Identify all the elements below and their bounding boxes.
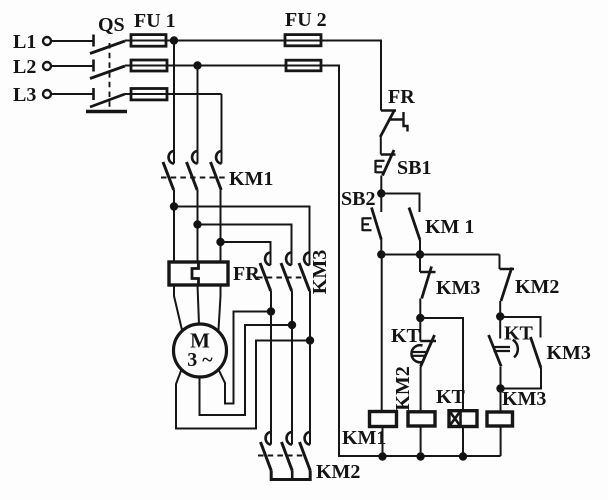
wire KM3-1 down — [270, 291, 272, 431]
terminal L2 — [43, 62, 51, 70]
coil KM2 — [408, 412, 435, 426]
KM2 main contact 2 — [287, 432, 292, 445]
wire KM2 coil to bus — [420, 426, 422, 456]
wire L1 drop — [173, 41, 175, 150]
wire W to KM3-1 — [221, 242, 271, 251]
svg-text:KM1: KM1 — [229, 168, 273, 190]
svg-text:L1: L1 — [13, 31, 36, 53]
fuse FU2 pole 1 — [285, 35, 321, 46]
wire FU2a to control column — [285, 41, 381, 111]
node seal-in right — [416, 251, 423, 258]
coil KM1 — [370, 412, 397, 427]
node seal-in left — [378, 251, 385, 258]
node U phase — [170, 203, 177, 210]
wire branch to KM3 aux — [500, 317, 540, 338]
KM1 main contact 1 — [169, 151, 174, 164]
wire SB1 to node — [380, 176, 382, 194]
KM3 main contact 3 — [304, 253, 309, 266]
svg-text:FU 2: FU 2 — [285, 9, 327, 31]
wire motor terminal W2 — [219, 312, 272, 404]
wire L1 to QS — [51, 40, 94, 42]
disconnect switch QS pole 3 — [92, 88, 95, 100]
thermal relay FR heater box — [169, 262, 228, 285]
wire motor terminal U2 — [176, 341, 310, 429]
thermal relay FR NC contact — [381, 109, 396, 112]
terminal L1 — [43, 37, 51, 45]
node KT branch — [417, 314, 424, 321]
node SB2 top — [378, 190, 385, 197]
wire KM1-1 to FR — [173, 190, 175, 262]
KM1 linkage dashed line — [161, 177, 228, 179]
svg-text:KT: KT — [436, 386, 466, 408]
node KM3 coil top — [497, 385, 504, 392]
coil KT — [449, 411, 477, 427]
wire SB2 bottom — [380, 240, 382, 255]
node L2 junction — [194, 62, 201, 69]
wire KM3-2 down — [291, 291, 293, 431]
ground bar — [86, 110, 127, 114]
KM3 NC contact — [419, 255, 421, 273]
svg-text:KM2: KM2 — [316, 461, 360, 483]
KM3 auxiliary contact — [531, 337, 542, 368]
svg-text:FU 1: FU 1 — [134, 10, 176, 32]
wire U to KM3-3 — [174, 207, 310, 252]
KM2 main linkage dashed line — [258, 455, 306, 457]
svg-text:QS: QS — [98, 14, 125, 36]
svg-text:KM3: KM3 — [436, 277, 480, 299]
svg-text:L2: L2 — [13, 56, 36, 78]
svg-text:KT: KT — [504, 323, 534, 345]
wire L3 drop — [221, 94, 223, 150]
node hairpin W2 — [267, 308, 274, 315]
KM2 NC contact — [500, 268, 515, 271]
wire KM1-3 to FR — [220, 190, 222, 262]
node KT right top — [497, 313, 504, 320]
wire L2 drop — [197, 66, 199, 150]
KM3 main contact 1 — [265, 253, 270, 266]
svg-text:L3: L3 — [13, 84, 36, 106]
svg-text:FR: FR — [233, 263, 260, 285]
wire KM1 coil to bus — [382, 427, 384, 457]
svg-text:3 ~: 3 ~ — [187, 349, 213, 371]
wire KT coil to bus — [462, 427, 464, 457]
disconnect switch QS pole 2 — [92, 60, 95, 72]
start button SB2 — [380, 194, 382, 213]
svg-text:KM2: KM2 — [392, 366, 414, 410]
svg-text:KM3: KM3 — [547, 342, 591, 364]
wire control row — [381, 254, 499, 256]
control bus bottom — [339, 455, 501, 457]
node V phase — [194, 221, 201, 228]
wire L3 to QS — [51, 93, 94, 95]
node hairpin U2 — [306, 337, 313, 344]
wire KT NC to KM2 coil — [420, 367, 422, 412]
KT delayed NC contact — [419, 318, 421, 341]
KM2 main contact 1 — [266, 432, 271, 445]
disconnect switch QS pole 1 — [92, 35, 95, 47]
left control rail — [286, 66, 339, 458]
node KM2 bus — [417, 453, 424, 460]
svg-text:SB1: SB1 — [397, 157, 431, 179]
wire FR to motor 1 — [174, 285, 182, 330]
coil KM3 — [487, 412, 513, 426]
KM2 star bus — [271, 471, 310, 480]
motor M circle — [174, 324, 227, 377]
fuse FU2 pole 2 — [286, 60, 321, 71]
wire FR to SB1 — [380, 137, 382, 155]
KM1 main contact 3 — [216, 151, 221, 164]
svg-text:KM2: KM2 — [515, 276, 559, 298]
wire L2 through FU1 to FU2 — [125, 65, 321, 67]
wire KM1-2 to FR — [197, 190, 199, 262]
wire FR to motor 2 — [198, 285, 200, 325]
wire V to KM3-2 — [198, 225, 292, 252]
stop button SB1 — [381, 153, 396, 156]
svg-text:SB2: SB2 — [341, 188, 375, 210]
svg-text:FR: FR — [388, 86, 415, 108]
wire L2 to QS — [51, 65, 94, 67]
svg-text:KM3: KM3 — [309, 250, 331, 294]
wire KM3NC down — [419, 299, 421, 319]
KM3 main contact 2 — [286, 253, 291, 266]
wire KM3-3 down — [309, 291, 311, 431]
terminal L3 — [43, 90, 51, 98]
wire to KM2 NC — [499, 255, 501, 270]
wire KM3 coil to bus — [500, 426, 502, 456]
fuse FU1 pole 2 — [131, 60, 167, 71]
KM1 main contact 2 — [192, 151, 197, 164]
svg-text:KM3: KM3 — [502, 388, 546, 410]
KM1 auxiliary contact — [409, 208, 420, 241]
svg-text:KM1: KM1 — [342, 427, 386, 449]
node L1 junction — [170, 37, 177, 44]
wire branch to KT coil — [420, 318, 463, 411]
node W phase — [217, 238, 224, 245]
node KM1 bus — [379, 453, 386, 460]
wire motor terminal V2 — [200, 325, 293, 415]
svg-text:KM 1: KM 1 — [425, 216, 474, 238]
svg-text:KT: KT — [391, 325, 421, 347]
node KT bus — [459, 453, 466, 460]
wire to KM1 coil — [381, 255, 383, 412]
fuse FU1 pole 1 — [131, 35, 166, 47]
KM3 main linkage dashed line — [257, 277, 306, 279]
fuse FU1 pole 3 — [131, 89, 167, 100]
wire to KM3 coil — [500, 389, 502, 413]
wire L1 through FU1 to FU2 — [125, 40, 321, 42]
wire L3 through FU1 — [125, 93, 222, 95]
KT delayed NO contact — [499, 317, 501, 339]
wire FR to motor 3 — [219, 285, 221, 330]
QS linkage dashed line — [109, 43, 111, 108]
KM2 main contact 3 — [305, 432, 310, 445]
node hairpin V2 — [288, 321, 295, 328]
wire branch to KM1 aux — [381, 194, 419, 213]
wire KT NO down — [500, 367, 502, 389]
